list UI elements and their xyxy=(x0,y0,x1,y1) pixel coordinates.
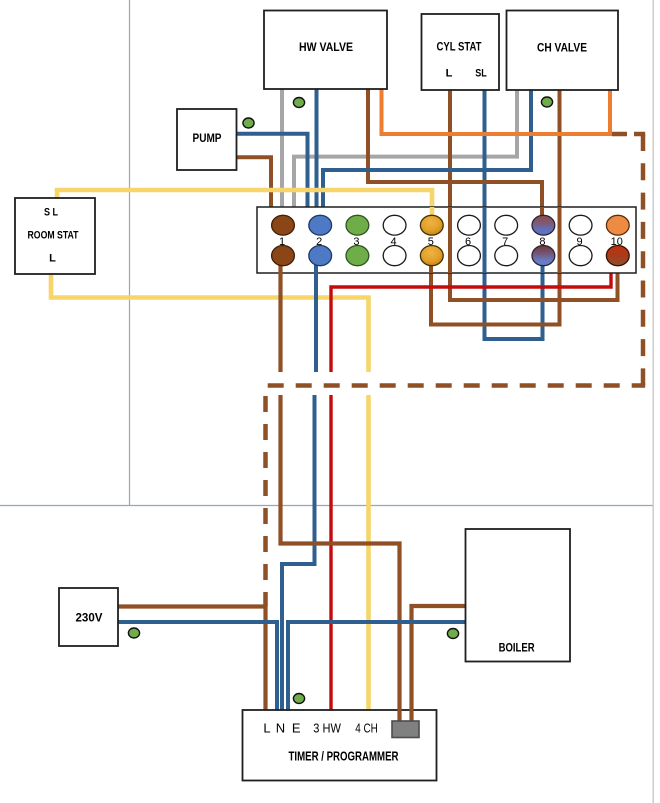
wire CYL STAT SL blue crossing strip xyxy=(483,207,487,273)
dashed brown boundary left vertical xyxy=(263,386,268,607)
page boundary grey line right xyxy=(652,0,654,803)
terminal 3 xyxy=(346,215,369,265)
earth dot below CH VALVE xyxy=(541,97,552,107)
wire CH VALVE brown through strip to terminal 5 bottom xyxy=(431,90,560,325)
svg-text:SL: SL xyxy=(475,67,487,79)
box PUMP xyxy=(177,109,237,170)
svg-text:230V: 230V xyxy=(76,613,103,625)
wire brown end into connector block left xyxy=(397,709,401,723)
terminal 2 xyxy=(309,215,332,265)
wire orange HW VALVE to CH VALVE xyxy=(382,89,611,134)
box 230V xyxy=(59,588,118,646)
wire CH VALVE grey jog to terminal strip xyxy=(294,90,517,207)
wire boiler brown to grey connector block xyxy=(412,606,466,722)
wire stub brown into strip to terminal 8 xyxy=(540,207,544,216)
wire 230V brown to timer L xyxy=(118,607,266,711)
svg-text:E: E xyxy=(292,720,301,735)
svg-text:HW VALVE: HW VALVE xyxy=(299,42,353,54)
terminal 10 xyxy=(606,215,629,265)
svg-text:CYL STAT: CYL STAT xyxy=(437,42,482,54)
wire 230V blue to timer N xyxy=(118,622,277,710)
terminal 5 xyxy=(420,215,443,265)
svg-text:L: L xyxy=(49,253,56,265)
wire CH VALVE brown crossing strip xyxy=(558,207,562,273)
wire stub brown terminal 1 bottom xyxy=(278,258,282,274)
terminal 6 xyxy=(458,215,481,265)
wire stub yellow into strip to terminal 5 xyxy=(430,207,435,216)
box CYL STAT xyxy=(422,14,500,90)
svg-text:L: L xyxy=(446,67,453,79)
earth dot above TIMER xyxy=(293,694,304,704)
dashed brown boundary top horizontal xyxy=(612,132,645,137)
wire terminal 1 brown to grey connector block xyxy=(281,395,400,722)
grey connector block on timer xyxy=(392,721,419,738)
svg-text:PUMP: PUMP xyxy=(193,133,222,145)
wire boiler blue to timer xyxy=(288,622,466,710)
svg-text:CH VALVE: CH VALVE xyxy=(537,43,587,55)
wire CYL STAT L brown through strip to terminal 10 bottom xyxy=(450,90,618,300)
box TIMER / PROGRAMMER xyxy=(243,710,437,781)
wire yellow to timer 4 CH lower xyxy=(366,395,371,710)
wire red to timer 3 HW lower xyxy=(329,395,332,710)
wire CYL STAT L brown crossing strip xyxy=(448,207,452,273)
earth dot near 230V xyxy=(128,628,139,638)
terminal 9 xyxy=(569,215,592,265)
svg-text:3 HW: 3 HW xyxy=(313,720,341,735)
svg-text:S L: S L xyxy=(44,207,58,219)
wire yellow ROOM STAT SL to terminal 5 top xyxy=(57,190,432,216)
earth dot near BOILER xyxy=(447,629,458,639)
wire red terminal 10 bottom to timer 3 HW upper xyxy=(331,273,611,372)
wire stub blue terminal 8 bottom xyxy=(541,258,545,273)
svg-text:ROOM STAT: ROOM STAT xyxy=(28,230,79,242)
terminal 7 xyxy=(495,215,518,265)
svg-text:4 CH: 4 CH xyxy=(355,720,378,735)
terminal 8 xyxy=(532,215,555,265)
box CH VALVE xyxy=(507,11,619,91)
earth dot near PUMP xyxy=(243,118,254,128)
wire HW VALVE grey to terminal 2 area xyxy=(280,89,284,207)
wire stub blue terminal 2 bottom xyxy=(314,258,318,274)
wire CH VALVE blue jog to terminal strip xyxy=(323,90,531,207)
wire PUMP brown to terminal strip xyxy=(237,157,272,207)
terminal 4 xyxy=(383,215,406,265)
svg-text:BOILER: BOILER xyxy=(499,642,536,654)
dashed brown boundary middle horizontal xyxy=(266,383,646,388)
wire PUMP blue to terminal strip xyxy=(237,134,308,207)
terminal strip box xyxy=(257,207,636,273)
box HW VALVE xyxy=(264,11,387,90)
gridline vertical light blue xyxy=(129,0,131,506)
wire stub brown terminal 5 bottom xyxy=(429,260,433,273)
svg-text:N: N xyxy=(276,720,285,735)
wire terminal 2 blue jog to timer xyxy=(282,395,315,710)
earth dot below HW VALVE xyxy=(293,98,304,108)
svg-text:TIMER / PROGRAMMER: TIMER / PROGRAMMER xyxy=(289,749,399,764)
wire yellow ROOM STAT L to timer 4 CH upper xyxy=(51,274,369,372)
wire CYL STAT SL blue through strip to terminal 8 bottom xyxy=(485,90,543,339)
wire brown end into connector block right xyxy=(409,709,413,723)
svg-text:L: L xyxy=(263,720,270,735)
box ROOM STAT xyxy=(15,198,95,274)
terminal 1 xyxy=(272,215,295,265)
wire terminal 2 blue down upper xyxy=(314,256,318,372)
wire HW VALVE blue to terminal strip xyxy=(315,89,319,207)
wire HW VALVE brown to terminal 8 top xyxy=(368,89,542,216)
wire terminal 1 brown down upper xyxy=(278,256,282,372)
gridline horizontal light blue xyxy=(0,505,653,507)
dashed brown boundary right vertical xyxy=(641,134,646,386)
box BOILER xyxy=(466,529,571,662)
